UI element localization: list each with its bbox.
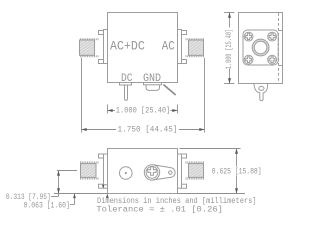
svg-text:1.000 [25.40]: 1.000 [25.40]: [116, 105, 171, 115]
svg-text:AC+DC: AC+DC: [110, 40, 145, 54]
svg-text:Dimensions in inches and [mill: Dimensions in inches and [millimeters]: [97, 196, 257, 206]
svg-text:1.750 [44.45]: 1.750 [44.45]: [118, 125, 178, 135]
svg-text:DC: DC: [121, 73, 133, 85]
svg-text:GND: GND: [143, 73, 161, 85]
svg-text:Tolerance = ± .01 [0.26]: Tolerance = ± .01 [0.26]: [96, 205, 222, 215]
svg-text:0.313 [7.95]: 0.313 [7.95]: [6, 192, 51, 202]
svg-text:AC: AC: [162, 40, 175, 54]
svg-text:1.000 [25.40]: 1.000 [25.40]: [224, 29, 234, 69]
svg-text:0.625 [15.88]: 0.625 [15.88]: [212, 167, 262, 177]
svg-text:0.063 [1.60]: 0.063 [1.60]: [24, 200, 70, 210]
